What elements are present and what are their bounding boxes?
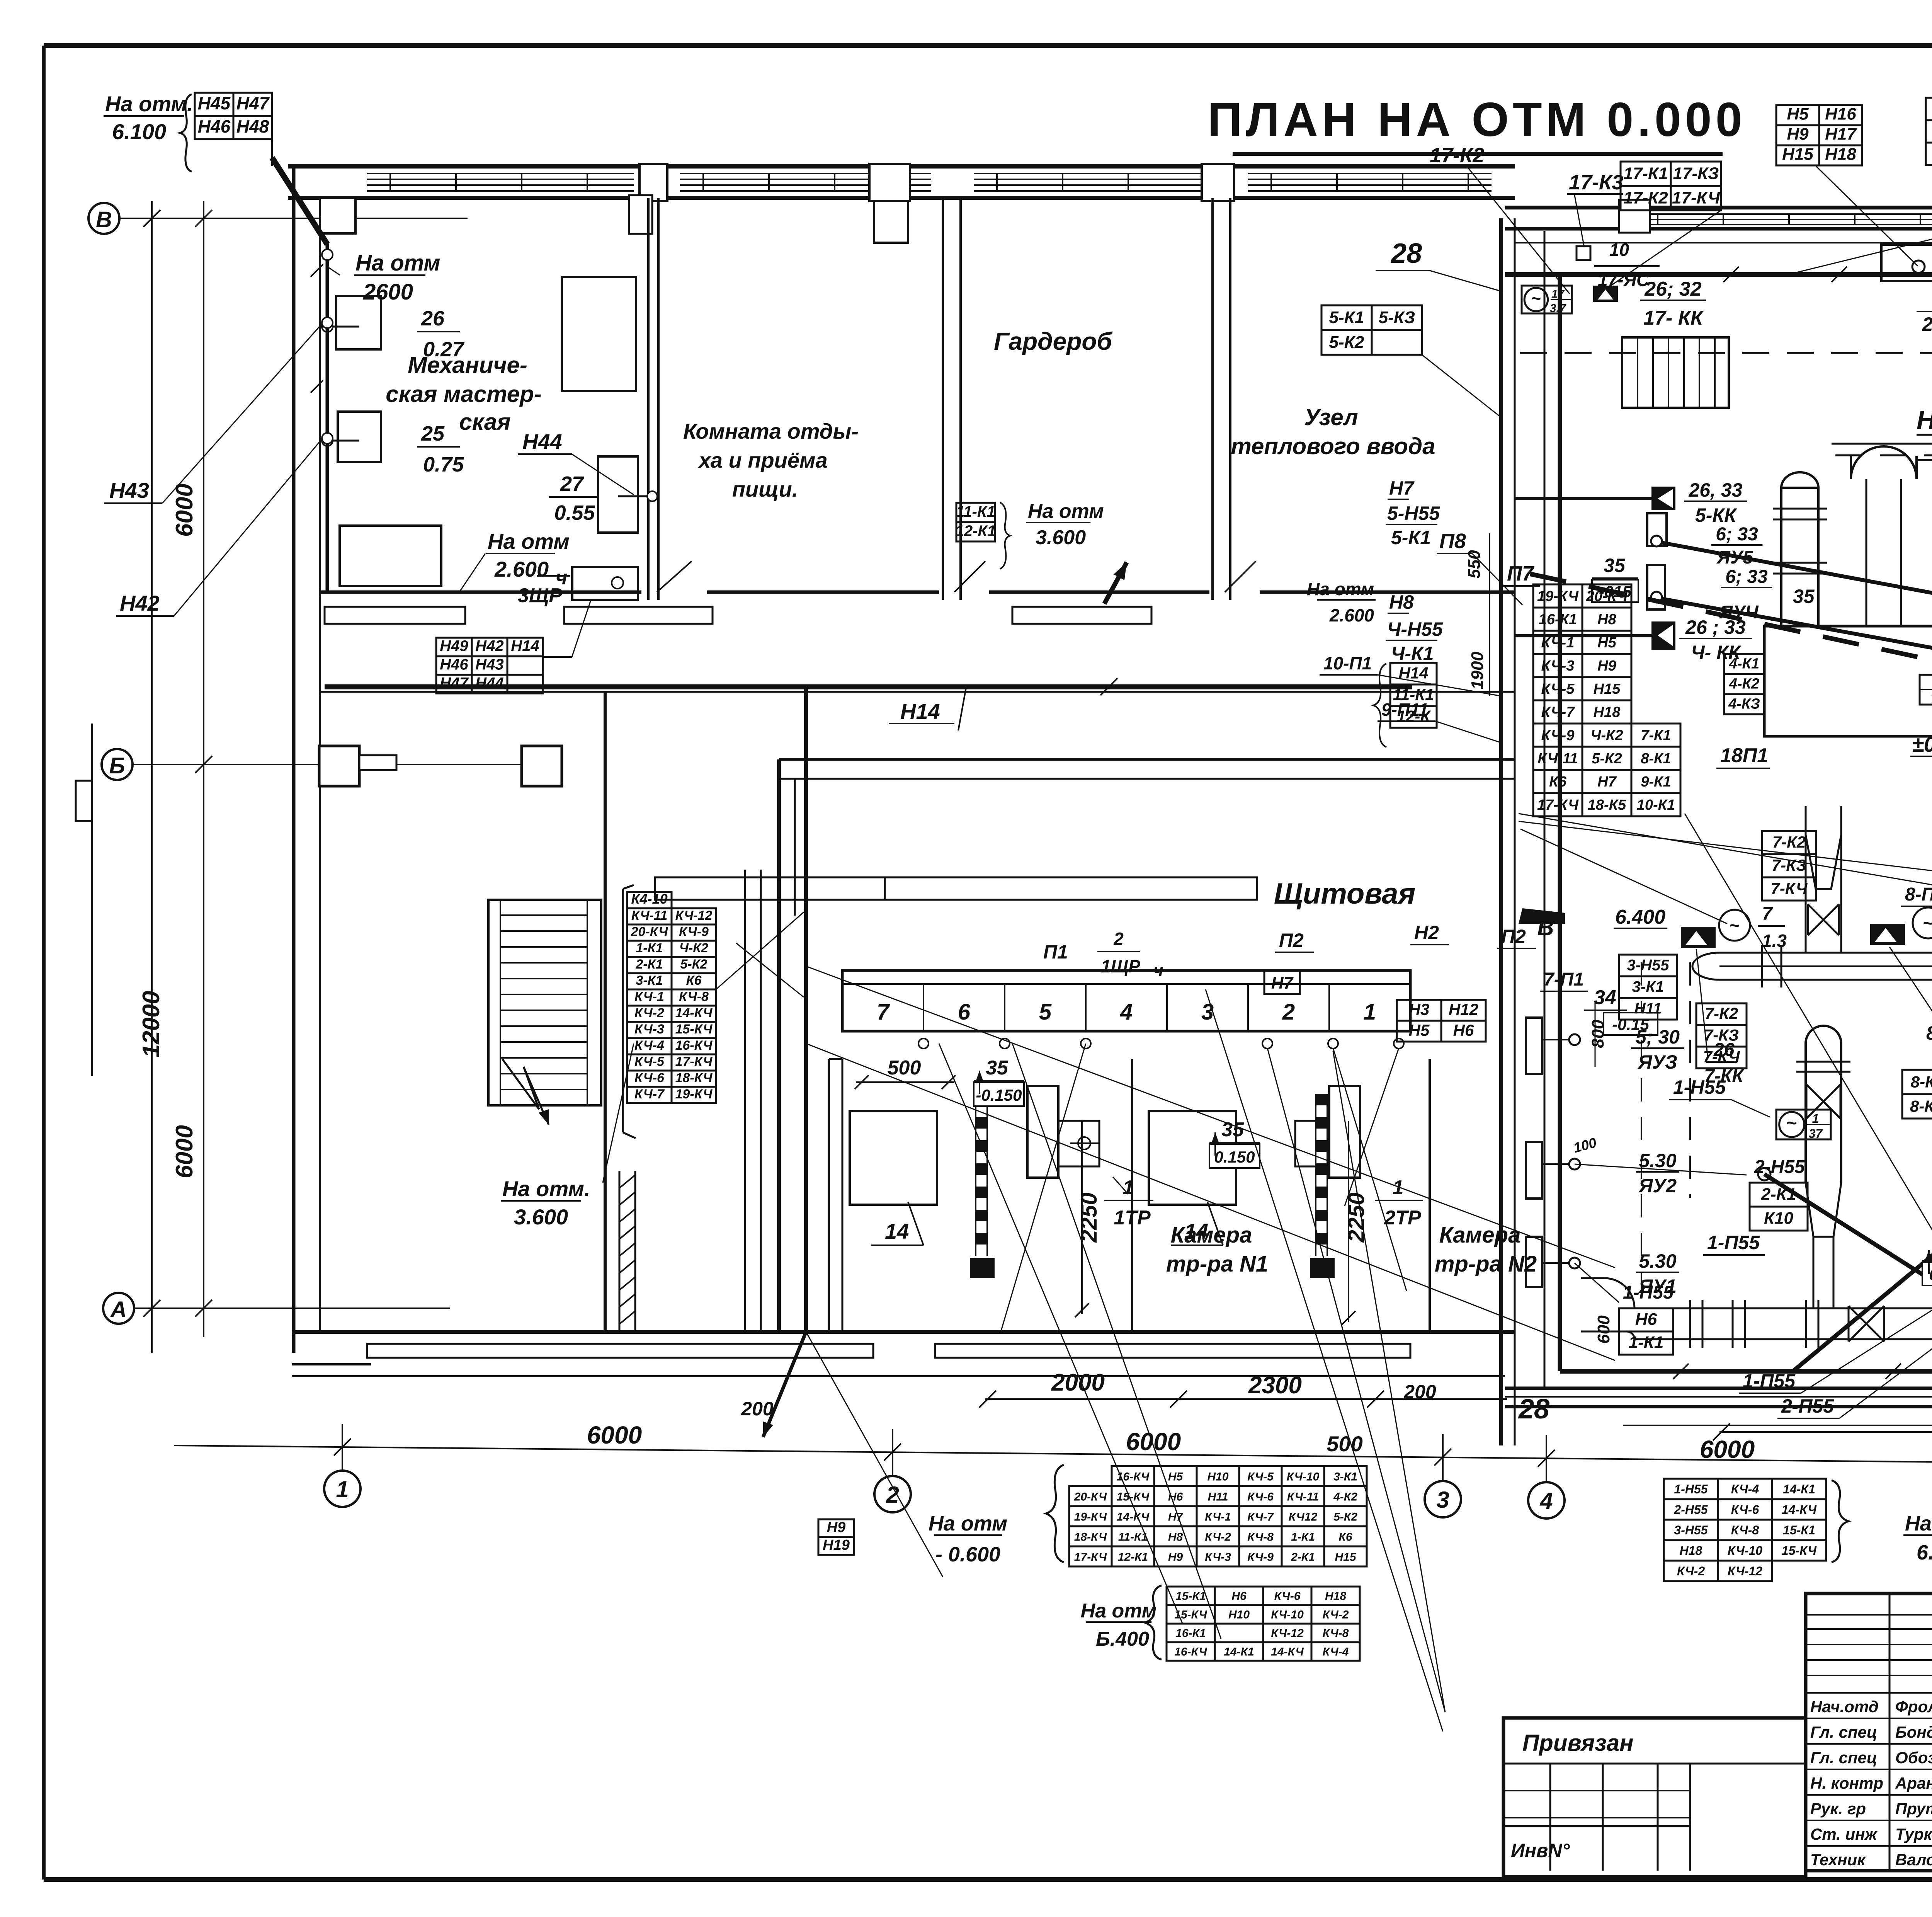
svg-text:Н7: Н7 — [1597, 774, 1617, 790]
svg-text:3ЩР: 3ЩР — [518, 584, 562, 607]
svg-text:1-К1: 1-К1 — [1629, 1333, 1664, 1352]
svg-text:КЧ-12: КЧ-12 — [675, 908, 713, 923]
svg-text:Н49: Н49 — [440, 638, 468, 655]
svg-text:5-К2: 5-К2 — [1333, 1510, 1357, 1523]
svg-text:18-КЧ: 18-КЧ — [1074, 1531, 1107, 1543]
svg-text:14-КЧ: 14-КЧ — [1782, 1503, 1817, 1517]
svg-text:КЧ-5: КЧ-5 — [1247, 1470, 1274, 1483]
svg-text:На отм: На отм — [1028, 500, 1104, 523]
Shchitovaya (panel room) walls — [777, 759, 781, 1332]
svg-text:Бондарь: Бондарь — [1895, 1723, 1932, 1741]
table na otm 6.400 (left) — [1167, 1587, 1215, 1605]
svg-text:4-К2: 4-К2 — [1729, 676, 1759, 692]
svg-text:Н19: Н19 — [823, 1537, 850, 1553]
svg-text:16-К1: 16-К1 — [1175, 1627, 1206, 1640]
corridor bottom wall — [321, 691, 1515, 693]
top wall pillars — [320, 198, 355, 233]
svg-text:1-П55: 1-П55 — [1743, 1370, 1796, 1392]
svg-text:7-КЧ: 7-КЧ — [1703, 1047, 1740, 1066]
svg-text:14-КЧ: 14-КЧ — [1271, 1646, 1304, 1658]
svg-text:В: В — [96, 207, 112, 232]
svg-text:Н48: Н48 — [236, 116, 269, 136]
hall left wall — [1499, 218, 1503, 1445]
svg-text:600: 600 — [1594, 1315, 1613, 1344]
svg-text:4-КЗ: 4-КЗ — [1728, 696, 1760, 712]
svg-text:2600: 2600 — [363, 279, 413, 305]
svg-text:3-Н55: 3-Н55 — [1674, 1523, 1708, 1537]
leader lines from K4 table — [716, 912, 804, 989]
svg-text:КЧ-8: КЧ-8 — [1323, 1627, 1349, 1640]
svg-text:Н42: Н42 — [475, 638, 503, 655]
svg-text:7-К2: 7-К2 — [1705, 1004, 1738, 1022]
svg-text:14: 14 — [885, 1219, 909, 1243]
svg-text:2250: 2250 — [1344, 1192, 1369, 1243]
section arrow B — [1519, 908, 1565, 924]
heavy riser in panel room — [804, 689, 808, 1332]
svg-text:Техник: Техник — [1810, 1851, 1866, 1869]
svg-text:Арансон: Арансон — [1895, 1774, 1932, 1792]
svg-text:11-К1: 11-К1 — [956, 503, 995, 520]
svg-text:Щитовая: Щитовая — [1274, 877, 1416, 910]
svg-text:26, 33: 26, 33 — [1688, 479, 1742, 501]
svg-text:Туркот: Туркот — [1895, 1825, 1932, 1843]
svg-text:27: 27 — [560, 472, 585, 495]
leader circles under panels — [918, 1039, 929, 1049]
svg-text:19-КЧ: 19-КЧ — [1074, 1510, 1107, 1523]
svg-text:1: 1 — [1123, 1176, 1134, 1199]
dashed floor lines — [1520, 352, 1932, 354]
transformer 2TP — [1329, 1086, 1360, 1178]
svg-text:15-КЧ: 15-КЧ — [1174, 1609, 1207, 1621]
svg-text:Н8: Н8 — [1168, 1531, 1183, 1543]
table H3 H12 — [1397, 1000, 1441, 1021]
svg-text:1: 1 — [1364, 999, 1376, 1025]
workshop bottom-left bench — [340, 526, 441, 586]
svg-text:Н5: Н5 — [1168, 1470, 1184, 1483]
svg-text:Н44: Н44 — [522, 429, 562, 454]
svg-text:2.600: 2.600 — [1329, 605, 1374, 625]
svg-text:34: 34 — [1594, 986, 1616, 1009]
svg-text:Н7: Н7 — [1271, 974, 1294, 993]
svg-text:КЧ-7: КЧ-7 — [634, 1087, 665, 1102]
svg-text:2ЩР: 2ЩР — [1922, 313, 1932, 335]
svg-text:12000: 12000 — [138, 991, 165, 1057]
svg-text:КЧ-1: КЧ-1 — [1205, 1510, 1231, 1523]
svg-text:Н45: Н45 — [198, 93, 231, 113]
svg-text:В: В — [1537, 914, 1554, 940]
pump 8 — [1870, 924, 1905, 945]
svg-text:20-КЧ: 20-КЧ — [631, 924, 668, 939]
pump 7 — [1681, 927, 1716, 948]
svg-text:Камера: Камера — [1171, 1222, 1252, 1248]
svg-text:Н3: Н3 — [1409, 1000, 1430, 1018]
svg-text:Фролов: Фролов — [1895, 1697, 1932, 1716]
striped bar chamber2 — [1316, 1094, 1327, 1105]
svg-text:15-К1: 15-К1 — [1783, 1523, 1815, 1537]
svg-text:КЧ-6: КЧ-6 — [1731, 1503, 1759, 1517]
striped bar chamber1 — [976, 1094, 987, 1105]
svg-text:-0.150: -0.150 — [976, 1086, 1022, 1104]
svg-text:П2: П2 — [1279, 930, 1304, 951]
svg-text:Н18: Н18 — [1825, 145, 1856, 163]
svg-text:КЧ-3: КЧ-3 — [634, 1022, 664, 1037]
svg-text:КЧ-3: КЧ-3 — [1205, 1551, 1231, 1563]
pump motors 1/37 2/37 3/37 — [1776, 1110, 1831, 1139]
svg-text:КЧ-11: КЧ-11 — [631, 908, 667, 923]
svg-text:18-К5: 18-К5 — [1588, 797, 1626, 813]
YaU2 cluster — [1526, 1142, 1542, 1199]
table 17-K1/17-K3 — [1621, 162, 1671, 186]
svg-text:37: 37 — [1809, 1127, 1823, 1141]
Sh1 Sh2 box — [1881, 245, 1932, 281]
7-K2 K3 K4 upper table — [1762, 831, 1816, 854]
svg-text:2-Н55: 2-Н55 — [1754, 1157, 1805, 1177]
long thin leader diagonals from panel row — [939, 1044, 1182, 1623]
svg-text:17-КЧ: 17-КЧ — [1074, 1551, 1107, 1563]
svg-text:2-К1: 2-К1 — [635, 957, 663, 972]
svg-text:Н6: Н6 — [1168, 1490, 1183, 1503]
svg-text:Н18: Н18 — [1325, 1590, 1346, 1603]
svg-text:6000: 6000 — [1126, 1428, 1181, 1456]
svg-text:КЧ-6: КЧ-6 — [634, 1071, 665, 1085]
structural columns on axis Б — [319, 746, 359, 786]
svg-text:тр-ра N2: тр-ра N2 — [1435, 1251, 1537, 1277]
svg-text:КЧ-7: КЧ-7 — [1247, 1510, 1274, 1523]
svg-text:17-КЗ: 17-КЗ — [1673, 164, 1719, 183]
svg-text:5-К1: 5-К1 — [1329, 308, 1364, 327]
svg-text:2-К1: 2-К1 — [1291, 1551, 1315, 1563]
svg-text:Н43: Н43 — [109, 478, 149, 502]
stair hall walls — [604, 692, 607, 1332]
3-H55 3-K1 H11 table — [1619, 955, 1677, 976]
YaU3 cluster — [1526, 1018, 1542, 1074]
svg-text:35: 35 — [986, 1057, 1009, 1079]
svg-text:6.400: 6.400 — [1615, 906, 1665, 928]
svg-text:Н8: Н8 — [1389, 591, 1414, 613]
svg-text:Н18: Н18 — [1594, 704, 1621, 720]
horizontal pipe top right — [1917, 434, 1932, 436]
box YaU5 — [1647, 513, 1667, 546]
svg-text:5-КК: 5-КК — [1695, 504, 1737, 526]
svg-text:6; 33: 6; 33 — [1725, 567, 1768, 587]
workshop equipment rect 26 — [336, 296, 381, 349]
svg-text:26: 26 — [421, 307, 445, 330]
svg-text:Н10: Н10 — [1228, 1609, 1250, 1621]
svg-text:17-ЯС: 17-ЯС — [1598, 270, 1650, 290]
transformer 1TP — [1027, 1086, 1058, 1178]
svg-text:На отм: На отм — [929, 1512, 1007, 1535]
svg-text:Н18: Н18 — [1680, 1544, 1702, 1558]
heavy cable tray top — [1505, 272, 1932, 277]
svg-text:2: 2 — [1282, 999, 1295, 1025]
svg-text:КЧ12: КЧ12 — [1289, 1510, 1318, 1523]
svg-text:17-К2: 17-К2 — [1430, 144, 1484, 167]
svg-text:1.3: 1.3 — [1762, 931, 1787, 951]
svg-text:Привязан: Привязан — [1522, 1730, 1633, 1756]
svg-text:Н14: Н14 — [900, 699, 940, 724]
svg-text:тр-ра N1: тр-ра N1 — [1166, 1251, 1268, 1277]
svg-text:10: 10 — [1609, 240, 1629, 260]
svg-text:11-К1: 11-К1 — [1118, 1531, 1148, 1543]
manifold pipes — [1719, 952, 1932, 954]
svg-text:~: ~ — [1730, 915, 1740, 935]
svg-text:Нач.отд: Нач.отд — [1810, 1697, 1879, 1716]
cable risers left wall — [326, 243, 329, 593]
svg-text:1-Н55: 1-Н55 — [1674, 1482, 1708, 1496]
grid axis circle 2 — [892, 1429, 893, 1476]
long thin leaders crossing hall — [1519, 814, 1932, 914]
svg-text:К4-10: К4-10 — [631, 891, 667, 907]
workshop bottom wall / corridor top — [321, 591, 641, 594]
svg-text:На отм: На отм — [1905, 1512, 1932, 1535]
svg-text:3: 3 — [1436, 1487, 1449, 1513]
svg-text:800: 800 — [1588, 1020, 1607, 1048]
svg-text:4: 4 — [1120, 999, 1133, 1025]
svg-text:КЧ-11: КЧ-11 — [1287, 1490, 1319, 1503]
svg-text:6.100: 6.100 — [112, 119, 166, 144]
svg-text:КЧ-12: КЧ-12 — [1728, 1564, 1762, 1578]
big dome pipe mid — [1851, 446, 1917, 479]
svg-text:ская: ская — [459, 409, 510, 435]
grid axis circle 1 — [342, 1424, 343, 1471]
svg-text:4: 4 — [1539, 1488, 1553, 1514]
svg-text:Н46: Н46 — [440, 656, 468, 673]
interior wall rooms top row — [647, 198, 650, 600]
svg-text:6000: 6000 — [171, 1125, 198, 1178]
box YaU4 — [1647, 565, 1665, 609]
svg-text:17-К3: 17-К3 — [1569, 171, 1623, 194]
svg-text:пищи.: пищи. — [732, 477, 798, 501]
svg-text:6. 400: 6. 400 — [1917, 1541, 1932, 1564]
svg-text:На отм: На отм — [355, 250, 440, 276]
svg-text:Н46: Н46 — [198, 116, 231, 136]
axis А — [103, 1293, 134, 1324]
svg-text:На отм.: На отм. — [502, 1176, 590, 1201]
svg-text:Н15: Н15 — [1782, 145, 1813, 163]
corridor window sills — [325, 607, 465, 624]
central big cable table — [1533, 584, 1582, 608]
svg-text:1ТР: 1ТР — [1114, 1207, 1151, 1229]
grid axis circle 4 — [1546, 1435, 1547, 1482]
svg-text:~: ~ — [1786, 1113, 1797, 1133]
svg-text:1-К1: 1-К1 — [636, 941, 663, 955]
svg-text:На отм: На отм — [488, 529, 570, 553]
svg-text:ЯУ2: ЯУ2 — [1638, 1175, 1677, 1197]
svg-text:5-К2: 5-К2 — [1592, 751, 1622, 767]
long leaders to bottom tables — [1206, 989, 1443, 1731]
svg-text:7-П1: 7-П1 — [1544, 969, 1584, 990]
svg-text:500: 500 — [1327, 1432, 1362, 1456]
suction columns to manifold — [1805, 806, 1807, 953]
svg-text:5-КЗ: 5-КЗ — [1379, 308, 1415, 327]
svg-text:КЧ-12: КЧ-12 — [1271, 1627, 1304, 1640]
svg-text:КЧ-4: КЧ-4 — [1731, 1482, 1759, 1496]
svg-text:15-КЧ: 15-КЧ — [1117, 1490, 1150, 1503]
table 5-K1 5-K3 — [1321, 305, 1372, 330]
svg-text:1ЩР: 1ЩР — [1101, 956, 1140, 976]
svg-text:КЧ-4: КЧ-4 — [634, 1038, 664, 1053]
svg-text:ская мастер-: ская мастер- — [386, 381, 542, 407]
svg-text:12-К1: 12-К1 — [956, 523, 996, 540]
svg-text:Н5: Н5 — [1409, 1021, 1430, 1039]
dim 500 chamber — [856, 1081, 954, 1083]
svg-text:Н17: Н17 — [1825, 124, 1857, 143]
svg-text:Обозная: Обозная — [1895, 1748, 1932, 1767]
svg-text:Насосная: Насосная — [1917, 405, 1932, 435]
svg-text:2250: 2250 — [1077, 1192, 1102, 1243]
svg-text:6; 33: 6; 33 — [1716, 524, 1758, 545]
svg-text:Н47: Н47 — [236, 93, 270, 113]
stair arrow — [502, 1059, 549, 1125]
axis B (В) — [88, 203, 119, 234]
svg-text:500: 500 — [888, 1057, 921, 1079]
svg-text:5-Н55: 5-Н55 — [1387, 502, 1440, 524]
svg-text:Н9: Н9 — [1597, 658, 1616, 674]
svg-text:К6: К6 — [1338, 1531, 1352, 1543]
H9/H19 boxed label — [818, 1519, 854, 1537]
black box 4-KK — [1651, 621, 1675, 650]
svg-text:ч: ч — [1153, 961, 1163, 980]
svg-text:КЧ-2: КЧ-2 — [1323, 1609, 1349, 1621]
svg-text:19-КЧ: 19-КЧ — [675, 1087, 713, 1102]
svg-text:5-К2: 5-К2 — [1329, 333, 1364, 352]
svg-text:КЧ-2: КЧ-2 — [634, 1006, 664, 1020]
svg-text:18-КЧ: 18-КЧ — [675, 1071, 713, 1085]
svg-text:Ч-К2: Ч-К2 — [679, 941, 708, 955]
heavy feeder stubs to wall — [1515, 497, 1651, 500]
svg-text:КЧ-8: КЧ-8 — [1247, 1531, 1274, 1543]
svg-text:7: 7 — [877, 999, 890, 1025]
svg-text:2-К1: 2-К1 — [1761, 1185, 1796, 1204]
svg-text:7-КЗ: 7-КЗ — [1704, 1026, 1739, 1044]
svg-text:4-К2: 4-К2 — [1333, 1490, 1357, 1503]
svg-text:16-КЧ: 16-КЧ — [1117, 1470, 1150, 1483]
svg-text:КЧ-8: КЧ-8 — [1731, 1523, 1759, 1537]
heavy cable diagonals to pumps — [1764, 1174, 1932, 1311]
svg-text:Н6: Н6 — [1453, 1021, 1474, 1039]
svg-text:35: 35 — [1793, 586, 1815, 607]
table 7-K2..4 — [1696, 1003, 1747, 1025]
svg-text:3-К1: 3-К1 — [1333, 1470, 1357, 1483]
heater rect 27 — [598, 456, 638, 533]
svg-text:Н43: Н43 — [475, 656, 503, 673]
svg-text:Н6: Н6 — [1635, 1310, 1657, 1329]
svg-text:3-Н55: 3-Н55 — [1627, 957, 1670, 974]
margin strip line left — [91, 724, 93, 1076]
svg-text:16-КЧ: 16-КЧ — [1174, 1646, 1207, 1658]
svg-text:- 0.600: - 0.600 — [935, 1543, 1000, 1566]
stairs left building — [488, 900, 601, 1105]
svg-text:Н5: Н5 — [1597, 635, 1616, 651]
svg-text:0.75: 0.75 — [423, 453, 464, 476]
svg-text:17-КЧ: 17-КЧ — [1672, 188, 1720, 207]
svg-text:Гл. спец: Гл. спец — [1810, 1748, 1877, 1767]
svg-text:Б.400: Б.400 — [1096, 1628, 1149, 1650]
svg-text:28: 28 — [1390, 238, 1422, 269]
svg-text:14-КЧ: 14-КЧ — [675, 1006, 713, 1020]
svg-text:На отм: На отм — [1307, 579, 1374, 599]
big pump base rect 4 — [1764, 626, 1932, 736]
svg-text:Валова: Валова — [1895, 1851, 1932, 1869]
svg-text:Гардероб: Гардероб — [994, 327, 1113, 355]
svg-text:К10: К10 — [1764, 1209, 1794, 1228]
svg-text:Н15: Н15 — [1594, 681, 1621, 697]
door arcs corridor — [657, 561, 692, 592]
svg-text:~: ~ — [1923, 913, 1932, 933]
svg-text:17-КЧ: 17-КЧ — [675, 1054, 713, 1069]
svg-text:4-К1: 4-К1 — [1729, 655, 1759, 672]
svg-text:3-К1: 3-К1 — [1632, 978, 1664, 995]
hatched wall strip — [619, 1171, 621, 1332]
svg-text:~: ~ — [1531, 289, 1541, 308]
svg-text:Камера: Камера — [1439, 1222, 1521, 1248]
svg-text:17-К1: 17-К1 — [1623, 164, 1668, 183]
svg-text:10-К1: 10-К1 — [1637, 797, 1675, 813]
svg-text:Узел: Узел — [1304, 404, 1358, 430]
svg-text:26; 32: 26; 32 — [1644, 278, 1702, 300]
svg-text:КЧ-2: КЧ-2 — [1677, 1564, 1705, 1578]
svg-text:3.600: 3.600 — [514, 1205, 568, 1229]
svg-text:8-К1: 8-К1 — [1641, 751, 1671, 767]
svg-text:Ст. инж: Ст. инж — [1810, 1825, 1878, 1843]
secondary dimensions row — [985, 1398, 1507, 1400]
workshop tall rect right — [562, 277, 636, 391]
heavy cable bus bottom — [1560, 1369, 1932, 1374]
svg-text:Н12: Н12 — [1449, 1000, 1478, 1018]
motor 4/75 — [1920, 675, 1932, 705]
building bottom wall — [292, 1330, 1515, 1334]
svg-text:1: 1 — [336, 1476, 349, 1502]
svg-text:7-К2: 7-К2 — [1772, 833, 1806, 851]
svg-text:1-К1: 1-К1 — [1291, 1531, 1315, 1543]
svg-text:КЧ-8: КЧ-8 — [679, 989, 709, 1004]
svg-text:Н6: Н6 — [1231, 1590, 1247, 1603]
svg-text:Н9: Н9 — [1168, 1551, 1183, 1563]
stairs hall — [1622, 337, 1729, 408]
table 1-H55 — [1664, 1479, 1718, 1499]
hall bottom band — [1505, 1387, 1932, 1390]
svg-text:8-К2: 8-К2 — [1911, 1073, 1932, 1091]
bottom dimension line — [174, 1445, 1932, 1469]
heavy cable H14 along corridor — [325, 684, 1412, 690]
duct strip in panel room — [655, 877, 1257, 900]
svg-text:Н7: Н7 — [1168, 1510, 1184, 1523]
YaU1 cluster — [1526, 1237, 1542, 1287]
svg-text:КЧ-4: КЧ-4 — [1323, 1646, 1349, 1658]
svg-text:ИнвN°: ИнвN° — [1511, 1840, 1570, 1861]
svg-text:КЧ-6: КЧ-6 — [1274, 1590, 1301, 1603]
svg-text:14-К1: 14-К1 — [1783, 1482, 1815, 1496]
pipe columns top hall — [1781, 488, 1818, 499]
workshop equipment rect 25 — [338, 412, 381, 462]
panel row (cells 7..1) — [842, 970, 1410, 1031]
bracket for K4 table — [622, 889, 624, 1132]
table N49 N42 N14 (mid) — [436, 638, 472, 656]
svg-text:КЧ-6: КЧ-6 — [1247, 1490, 1274, 1503]
svg-text:2-Н55: 2-Н55 — [1673, 1503, 1708, 1517]
svg-text:200: 200 — [1403, 1381, 1436, 1403]
svg-text:±0,000: ±0,000 — [1912, 732, 1932, 756]
svg-text:15-КЧ: 15-КЧ — [675, 1022, 713, 1037]
svg-text:1-П55: 1-П55 — [1707, 1232, 1760, 1253]
svg-text:5; 30: 5; 30 — [1636, 1026, 1680, 1048]
transformer chamber 1 equipment — [850, 1111, 937, 1205]
svg-text:Ч-К2: Ч-К2 — [1590, 727, 1623, 744]
svg-text:Комната отды-: Комната отды- — [683, 419, 859, 443]
svg-text:Ч-Н55: Ч-Н55 — [1387, 618, 1443, 640]
svg-text:16-КЧ: 16-КЧ — [675, 1038, 713, 1053]
svg-text:А: А — [110, 1297, 127, 1322]
